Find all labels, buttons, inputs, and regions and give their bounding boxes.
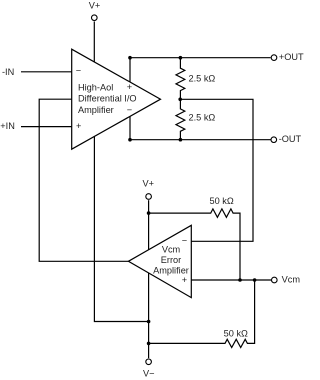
svg-text:2.5 kΩ: 2.5 kΩ [189, 112, 216, 122]
svg-text:-OUT: -OUT [279, 134, 302, 144]
svg-text:+OUT: +OUT [279, 52, 304, 62]
svg-text:V+: V+ [89, 0, 101, 10]
svg-text:V−: V− [143, 369, 155, 379]
svg-text:Differential I/O: Differential I/O [78, 94, 137, 104]
svg-text:−: − [76, 66, 81, 76]
svg-text:Vcm: Vcm [282, 275, 301, 285]
svg-text:2.5 kΩ: 2.5 kΩ [189, 73, 216, 83]
svg-text:-IN: -IN [2, 67, 14, 77]
svg-text:+: + [127, 82, 132, 92]
svg-text:−: − [182, 236, 187, 246]
svg-text:50 kΩ: 50 kΩ [224, 328, 248, 338]
svg-text:−: − [127, 105, 132, 115]
svg-text:Error: Error [161, 255, 181, 265]
svg-text:+: + [182, 275, 187, 285]
svg-text:+IN: +IN [0, 121, 15, 131]
svg-text:Amplifier: Amplifier [78, 105, 114, 115]
svg-text:High-Aol: High-Aol [78, 82, 113, 92]
svg-text:50 kΩ: 50 kΩ [209, 196, 233, 206]
svg-text:+: + [76, 121, 81, 131]
svg-text:V+: V+ [143, 178, 155, 188]
svg-text:Vcm: Vcm [162, 245, 181, 255]
